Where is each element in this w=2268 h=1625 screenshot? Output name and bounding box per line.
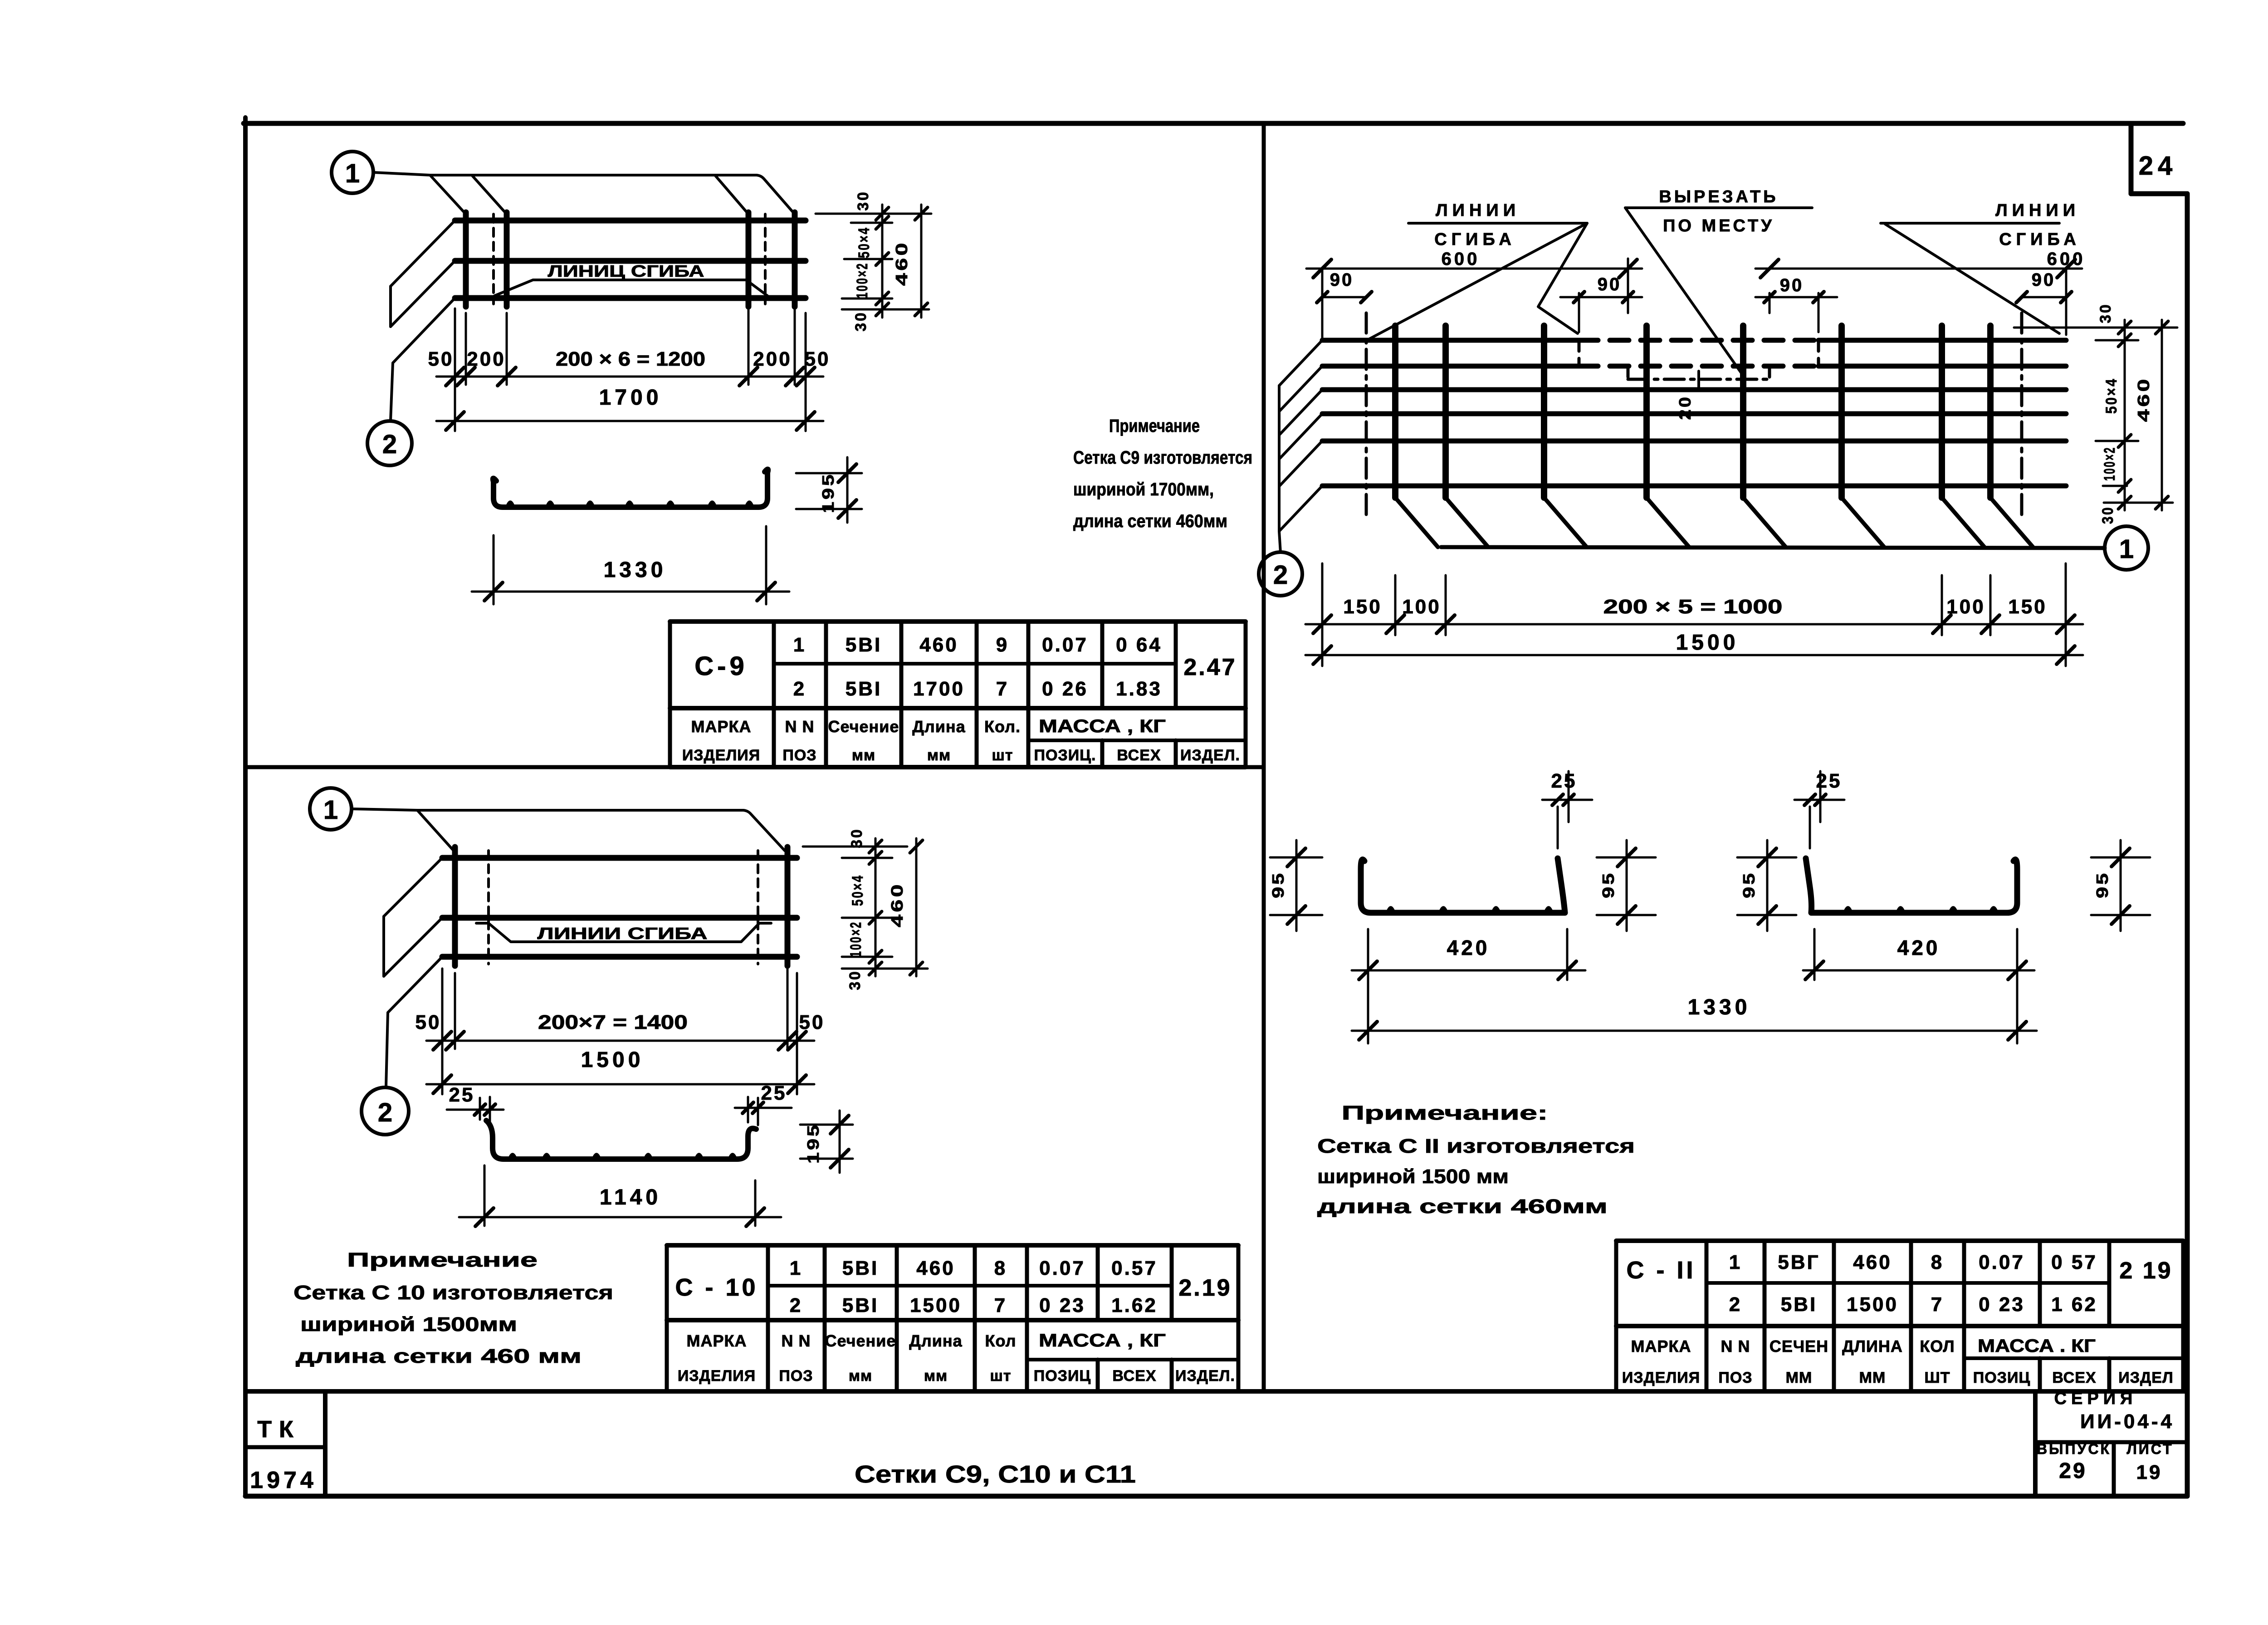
svg-text:460: 460 [888,882,906,927]
svg-text:ТК: ТК [257,1416,301,1443]
svg-text:95: 95 [1740,871,1758,898]
C-11 vertical dimension line 30/50x4/100x2/30 [2097,303,2131,524]
svg-text:600: 600 [1442,249,1480,269]
C-11 mesh cross wires with bent tails [1395,326,2033,547]
leader to view circle 2 (C-9) [391,363,393,421]
svg-text:200: 200 [753,348,792,370]
svg-text:1330: 1330 [1688,995,1751,1019]
svg-text:ПОЗ: ПОЗ [1718,1369,1752,1386]
svg-text:90: 90 [2032,270,2056,290]
C-11 section dimension 420 left [1352,929,1585,1043]
svg-text:195: 195 [804,1123,822,1164]
svg-text:шириной 1500 мм: шириной 1500 мм [1317,1165,1509,1188]
svg-text:ИЗДЕЛИЯ: ИЗДЕЛИЯ [678,1367,756,1385]
leader lines from left fold label [1369,223,1587,339]
leader to view circle 2 (C-10) [386,1013,388,1087]
svg-text:ПОЗИЦ: ПОЗИЦ [1034,1367,1091,1385]
C-11 left U hook dimension 25 [1542,770,1592,848]
svg-text:100×2: 100×2 [847,921,865,957]
svg-text:Сетка С II изготовляется: Сетка С II изготовляется [1317,1135,1635,1157]
C-10 dimension line 1500 [426,1048,814,1093]
C-9 section dimension 1330 [472,526,789,604]
svg-text:ИИ-04-4: ИИ-04-4 [2080,1410,2175,1433]
svg-text:460: 460 [892,240,911,286]
svg-text:1: 1 [793,634,806,656]
svg-text:50×4: 50×4 [849,874,866,906]
svg-text:25: 25 [1816,770,1842,792]
svg-text:195: 195 [819,472,837,513]
svg-text:мм: мм [852,747,875,764]
svg-text:мм: мм [924,1367,948,1385]
C-11 right dimension chain extension lines [2014,328,2177,503]
svg-text:1: 1 [323,795,338,825]
page number box 24 [2131,123,2187,194]
svg-text:ВСЕХ: ВСЕХ [1117,747,1161,764]
C-9 section dimension 195 [796,457,862,523]
svg-text:СГИБА: СГИБА [1434,230,1516,249]
svg-text:Примечание:: Примечание: [1342,1102,1548,1124]
svg-text:5ВI: 5ВI [842,1294,879,1317]
svg-text:1500: 1500 [1676,631,1739,655]
svg-text:длина сетки 460мм: длина сетки 460мм [1317,1195,1608,1218]
svg-text:2: 2 [1273,560,1288,590]
svg-text:ДЛИНА: ДЛИНА [1842,1337,1903,1356]
svg-text:460: 460 [1853,1251,1892,1273]
C-10 section dimension 195 [800,1111,853,1173]
svg-text:N N: N N [785,717,815,736]
svg-text:1: 1 [1729,1251,1742,1273]
svg-text:100: 100 [1402,596,1441,618]
svg-text:N N: N N [782,1331,811,1350]
leader line from right fold label [1885,224,2059,333]
C-10 vertical dimension line 30/50x4/100x2/30 [846,828,882,990]
series box [2035,1389,2187,1496]
svg-text:мм: мм [927,747,951,764]
svg-text:1500: 1500 [910,1294,962,1317]
C-9 dashed fold wires [494,214,765,304]
svg-text:7: 7 [1931,1293,1944,1316]
svg-text:30: 30 [852,311,870,332]
C-9 longitudinal bar 1 [455,218,806,224]
C-11 section dimension 95 #4 [2091,840,2150,931]
C-11 section dimension 1330 [1352,995,2037,1040]
svg-text:1 62: 1 62 [2051,1293,2097,1316]
C-10 U cross-section [486,1121,756,1159]
svg-text:2: 2 [790,1294,802,1317]
C-10 bottom dimension extension lines [442,969,797,1094]
svg-text:2: 2 [382,430,397,459]
svg-text:50×4: 50×4 [2103,377,2120,414]
C-9 U cross-section [493,469,768,507]
svg-text:ИЗДЕЛ.: ИЗДЕЛ. [1180,747,1240,764]
svg-text:200 × 5 = 1000: 200 × 5 = 1000 [1603,596,1783,618]
svg-text:МАРКА: МАРКА [687,1331,747,1350]
svg-text:1: 1 [345,159,360,188]
svg-text:мм: мм [849,1367,872,1385]
svg-text:Длина: Длина [909,1331,962,1350]
view circle 1 (C-9) [332,152,430,193]
svg-text:ВСЕХ: ВСЕХ [2052,1369,2096,1386]
C-11 bottom dimension extension lines [1322,563,2066,666]
C-10 vertical dimension line 460 [888,838,923,976]
leader line from cut-out label [1625,208,1744,377]
svg-text:КОЛ: КОЛ [1920,1337,1955,1356]
C-10 longitudinal bar 2 [442,915,797,921]
C-11 left flap diagonals [1279,340,1322,531]
C-11 dimension 90 #1 [1317,270,1372,303]
svg-text:Сечение: Сечение [828,717,899,736]
C-11 vertical dimension line 460 [2134,320,2168,510]
svg-text:ВСЕХ: ВСЕХ [1112,1367,1156,1385]
horizontal divider left half [245,765,1264,769]
label LINII SGIBA right (C-11) [1881,201,2085,269]
C-9 flap right wire diagonal [715,175,748,214]
C-10 left flap diagonals [384,858,442,1013]
svg-text:1500: 1500 [581,1048,644,1072]
svg-text:ИЗДЕЛИЯ: ИЗДЕЛИЯ [682,747,760,764]
svg-text:90: 90 [1598,274,1622,294]
svg-text:0 64: 0 64 [1116,634,1162,656]
label LINII SGIBA left (C-11) [1408,201,1587,269]
view circle 2 (C-9) [367,421,412,465]
svg-text:30: 30 [846,970,864,990]
svg-text:МАССА , КГ: МАССА , КГ [1039,716,1166,736]
C-10 section hook dimension 25 left [447,1084,503,1122]
svg-text:50: 50 [428,348,454,370]
title bar top line [245,1389,2187,1394]
svg-text:2: 2 [793,678,806,700]
C-9 longitudinal bar 2 [455,258,806,264]
svg-text:ПОЗ: ПОЗ [779,1367,813,1385]
svg-text:50: 50 [805,348,831,370]
svg-text:100×2: 100×2 [854,262,871,299]
svg-text:МАССА . КГ: МАССА . КГ [1978,1336,2096,1356]
svg-text:7: 7 [996,678,1009,700]
svg-text:1.62: 1.62 [1111,1294,1158,1317]
svg-text:95: 95 [1269,871,1287,898]
C-11 dimension 90 #3 [1755,275,1837,332]
svg-text:5ВI: 5ВI [1781,1293,1817,1316]
C-11 section dimension 95 #3 [1737,840,1796,931]
C-9 left flap diagonals [391,220,455,363]
svg-text:2.47: 2.47 [1183,654,1237,680]
svg-text:2: 2 [1729,1293,1742,1316]
C-10 dashed fold wires [489,851,758,964]
svg-text:5ВI: 5ВI [842,1257,879,1279]
svg-text:460: 460 [2134,377,2153,422]
svg-text:100×2: 100×2 [2101,446,2118,481]
C-11 section dimension 95 #2 [1597,840,1656,931]
C-9 dimension line 50|200|1200|200|50 [428,348,831,386]
svg-text:0.07: 0.07 [1042,634,1088,656]
C-11 fold dimension 600 right [1755,259,2082,335]
svg-text:шириной 1500мм: шириной 1500мм [300,1313,517,1336]
svg-text:ИЗДЕЛ: ИЗДЕЛ [2118,1369,2174,1386]
svg-text:МАССА , КГ: МАССА , КГ [1039,1331,1166,1351]
svg-text:ВЫПУСК: ВЫПУСК [2037,1441,2111,1457]
svg-text:Длина: Длина [912,717,965,736]
svg-text:0 57: 0 57 [2051,1251,2097,1273]
svg-text:С - 10: С - 10 [675,1274,758,1301]
svg-text:шт: шт [990,1367,1012,1385]
svg-text:200: 200 [467,348,505,370]
svg-text:30: 30 [2099,506,2116,524]
svg-text:1: 1 [790,1257,802,1279]
C-10 fold line [476,923,771,942]
svg-text:200 × 6 = 1200: 200 × 6 = 1200 [556,348,705,370]
C-10 flap left diagonal [417,810,454,851]
C-11 section dimension 420 right [1803,929,2034,1043]
svg-text:150: 150 [2008,596,2047,618]
svg-text:30: 30 [855,191,872,211]
svg-text:50: 50 [799,1011,825,1033]
svg-text:8: 8 [1931,1251,1944,1273]
svg-text:С-9: С-9 [694,651,748,681]
C-9 flap left wire diagonals [430,175,507,214]
view circle 2 (C-11) [1259,552,1302,596]
svg-text:ЛИНИЦ СГИБА: ЛИНИЦ СГИБА [548,262,704,280]
svg-text:5ВI: 5ВI [846,678,882,700]
svg-text:25: 25 [761,1082,787,1104]
svg-text:ПОЗИЦ.: ПОЗИЦ. [1034,747,1096,764]
C-11 specification table [1616,1241,2183,1391]
TK box [246,1391,325,1496]
svg-text:20: 20 [1676,395,1694,420]
C-10 longitudinal bar 3 [442,954,797,960]
C-10 longitudinal bar 1 [442,855,797,861]
svg-text:2.19: 2.19 [1178,1275,1232,1301]
svg-text:29: 29 [2059,1459,2087,1483]
C-9 longitudinal bar 3 [455,295,806,301]
C-11 left U cross-section [1361,858,1565,913]
C-11 cut-out outline [1579,340,1818,420]
svg-text:1700: 1700 [913,678,965,700]
svg-text:25: 25 [1551,770,1577,792]
svg-text:2: 2 [378,1098,392,1127]
view circle 2 (C-10) [362,1087,409,1135]
svg-text:ЛИНИИ: ЛИНИИ [1436,201,1520,220]
svg-text:1330: 1330 [604,558,667,582]
svg-text:СЕЧЕН: СЕЧЕН [1769,1337,1828,1356]
C-10 flap top edge [417,810,785,851]
C-9 specification table [670,622,1246,767]
C-10 dimension line 50|1400|50 [415,1011,825,1050]
C-9 cross wires [466,212,795,307]
C-10 section dimension 1140 [459,1165,781,1226]
svg-text:ИЗДЕЛИЯ: ИЗДЕЛИЯ [1622,1369,1700,1386]
vertical divider between halves [1262,123,1266,1391]
svg-text:1500: 1500 [1847,1293,1898,1316]
svg-text:N N: N N [1721,1337,1750,1356]
svg-text:МАРКА: МАРКА [691,717,752,736]
svg-text:95: 95 [2093,871,2112,898]
svg-text:Кол: Кол [985,1331,1017,1350]
C-11 dimension line 1500 [1305,631,2083,664]
C-9 note text [1073,416,1252,531]
svg-text:25: 25 [449,1084,475,1106]
svg-text:50×4: 50×4 [855,226,873,258]
svg-text:ВЫРЕЗАТЬ: ВЫРЕЗАТЬ [1659,187,1778,206]
svg-text:150: 150 [1343,596,1382,618]
svg-text:7: 7 [994,1294,1007,1317]
svg-text:МАРКА: МАРКА [1631,1337,1691,1356]
border frame [244,117,2187,1496]
svg-text:100: 100 [1946,596,1985,618]
svg-text:СЕРИЯ: СЕРИЯ [2054,1389,2137,1408]
C-10 section hook dimension 25 right [735,1082,792,1125]
svg-text:90: 90 [1780,275,1804,295]
svg-text:30: 30 [848,828,865,848]
leader to view circle 2 (C-11) [1279,531,1281,553]
svg-text:0.07: 0.07 [1039,1257,1085,1279]
C-11 section dimension 95 #1 [1269,840,1322,931]
svg-text:90: 90 [1330,270,1354,290]
svg-text:СГИБА: СГИБА [1999,230,2081,249]
svg-text:Примечание: Примечание [347,1249,538,1271]
view circle 1 (C-11) [2105,526,2148,570]
C-10 specification table [667,1245,1238,1391]
svg-text:2 19: 2 19 [2119,1258,2172,1284]
C-11 dimension line 150|100|1000|100|150 [1305,596,2083,633]
svg-text:1: 1 [2119,534,2134,564]
C-11 right U cross-section [1806,858,2017,913]
C-10 cross wires [455,847,787,966]
svg-text:50: 50 [415,1011,441,1033]
C-9 bottom dimension extension lines [455,308,806,431]
C-11 mesh longitudinal wires [1322,340,2066,486]
svg-text:0 23: 0 23 [1979,1293,2025,1316]
C-11 fold dimension 600 left [1306,259,1642,338]
svg-text:ШТ: ШТ [1925,1369,1950,1386]
svg-text:шириной 1700мм,: шириной 1700мм, [1073,480,1214,499]
svg-text:Сетка С 10 изготовляется: Сетка С 10 изготовляется [293,1282,613,1304]
svg-text:0 26: 0 26 [1042,678,1088,700]
C-11 dimension 90 #4 [2016,270,2072,303]
svg-text:ПО МЕСТУ: ПО МЕСТУ [1663,216,1774,235]
svg-text:5ВI: 5ВI [846,634,882,656]
view circle 1 (C-10) [310,788,417,830]
C-11 right U hook dimension 25 [1794,770,1844,848]
C-9 vertical dimension line 30/50x4/100x2/30 [852,191,889,332]
svg-text:длина сетки 460мм: длина сетки 460мм [1073,511,1227,531]
svg-text:Примечание: Примечание [1109,416,1200,436]
svg-text:ММ: ММ [1859,1369,1886,1386]
svg-text:Сетка С9 изготовляется: Сетка С9 изготовляется [1073,448,1252,468]
svg-text:длина сетки 460 мм: длина сетки 460 мм [296,1345,582,1367]
svg-text:ЛИСТ: ЛИСТ [2126,1441,2173,1457]
C-10 right dimension chain extension lines [803,847,928,969]
svg-text:8: 8 [994,1257,1007,1279]
svg-text:95: 95 [1599,871,1618,898]
svg-text:Сетки С9, С10 и С11: Сетки С9, С10 и С11 [855,1461,1136,1488]
C-9 vertical dimension line 460 [892,205,928,318]
svg-text:ММ: ММ [1786,1369,1813,1386]
C-9 flap top edge [430,175,795,214]
C-11 dimension 90 #2 [1560,274,1642,332]
svg-text:ПОЗИЦ: ПОЗИЦ [1973,1369,2030,1386]
svg-text:ЛИНИИ: ЛИНИИ [1995,201,2080,220]
svg-text:1.83: 1.83 [1116,678,1162,700]
svg-text:420: 420 [1897,936,1941,959]
C-9 right dimension chain extension lines [816,214,931,309]
svg-text:30: 30 [2097,303,2114,323]
svg-text:460: 460 [919,634,958,656]
C-11 note text [1317,1102,1635,1218]
svg-text:5ВГ: 5ВГ [1778,1251,1820,1273]
label VYREZAT PO MESTU [1625,187,1812,235]
svg-text:Кол.: Кол. [984,717,1021,736]
svg-text:шт: шт [992,747,1013,764]
svg-text:ИЗДЕЛ.: ИЗДЕЛ. [1175,1367,1235,1385]
svg-text:ПОЗ: ПОЗ [782,747,816,764]
svg-text:9: 9 [996,634,1009,656]
svg-text:460: 460 [916,1257,955,1279]
svg-text:0.57: 0.57 [1111,1257,1158,1279]
C-9 fold line [494,280,767,296]
svg-text:0.07: 0.07 [1979,1251,2025,1273]
C-11 mesh bent bottom wire [1441,547,2105,548]
svg-text:200×7 = 1400: 200×7 = 1400 [538,1011,688,1033]
C-11 dashed fold lines [1366,313,2022,519]
svg-text:С - II: С - II [1627,1257,1696,1284]
svg-text:1700: 1700 [599,386,662,410]
svg-text:1140: 1140 [600,1185,661,1209]
svg-text:420: 420 [1447,936,1490,959]
C-10 note text [293,1249,613,1367]
svg-text:0 23: 0 23 [1039,1294,1085,1317]
svg-text:19: 19 [2136,1461,2162,1483]
C-9 dimension line 1700 [436,386,823,430]
svg-text:Сечение: Сечение [825,1331,896,1350]
svg-text:ЛИНИИ СГИБА: ЛИНИИ СГИБА [538,924,708,943]
svg-text:1974: 1974 [250,1467,317,1493]
svg-text:24: 24 [2139,151,2177,181]
